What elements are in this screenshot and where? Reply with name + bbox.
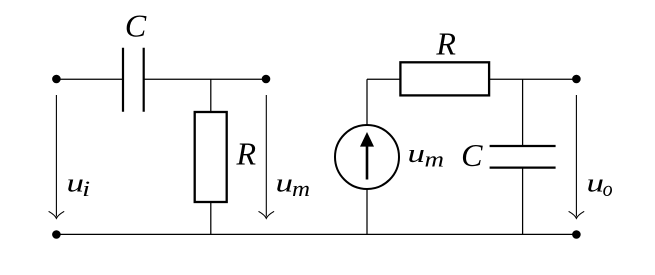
svg-text:C: C <box>461 137 483 173</box>
wire top-left terminal to capacitor C1 <box>56 78 123 80</box>
wire resistor R2 to node E <box>489 78 576 80</box>
svg-text:i: i <box>82 176 90 201</box>
capacitor C2 bottom plate <box>490 167 556 169</box>
svg-text:u: u <box>408 139 426 168</box>
node C (bottom-left terminal) <box>52 230 61 239</box>
voltage arrow u_i <box>49 95 64 218</box>
bottom rail wire <box>56 233 576 235</box>
voltage arrow u_o <box>569 95 584 218</box>
wire top rail to capacitor C2 <box>522 79 524 146</box>
node A (top-left terminal) <box>52 75 61 84</box>
svg-text:o: o <box>603 176 613 201</box>
wire capacitor C2 to bottom rail <box>522 168 524 235</box>
voltage arrow u_m (left circuit) <box>259 95 274 218</box>
svg-text:u: u <box>587 169 605 198</box>
current source U1 circle <box>335 125 399 189</box>
capacitor C1 right plate <box>143 48 145 112</box>
current source U1 internal arrow <box>360 132 374 180</box>
svg-text:R: R <box>236 136 257 172</box>
svg-text:m: m <box>292 176 310 201</box>
wire resistor R1 to bottom rail <box>210 202 212 235</box>
resistor R1 <box>195 112 227 202</box>
capacitor C1 left plate <box>122 48 124 112</box>
svg-text:u: u <box>276 169 294 198</box>
node D (bottom-right terminal) <box>572 230 581 239</box>
resistor R2 <box>400 62 489 95</box>
svg-text:C: C <box>125 7 147 43</box>
svg-text:R: R <box>435 25 456 61</box>
capacitor C2 top plate <box>490 145 556 147</box>
wire top rail to resistor R1 <box>210 79 212 112</box>
wire top rail from current source to resistor R2 <box>367 79 400 125</box>
wire capacitor C1 to node B <box>144 78 266 80</box>
svg-text:m: m <box>425 147 445 172</box>
wire current source to bottom rail <box>366 189 368 235</box>
node E (top-right terminal) <box>572 75 581 84</box>
node B (top-right terminal of left circuit) <box>262 75 271 84</box>
